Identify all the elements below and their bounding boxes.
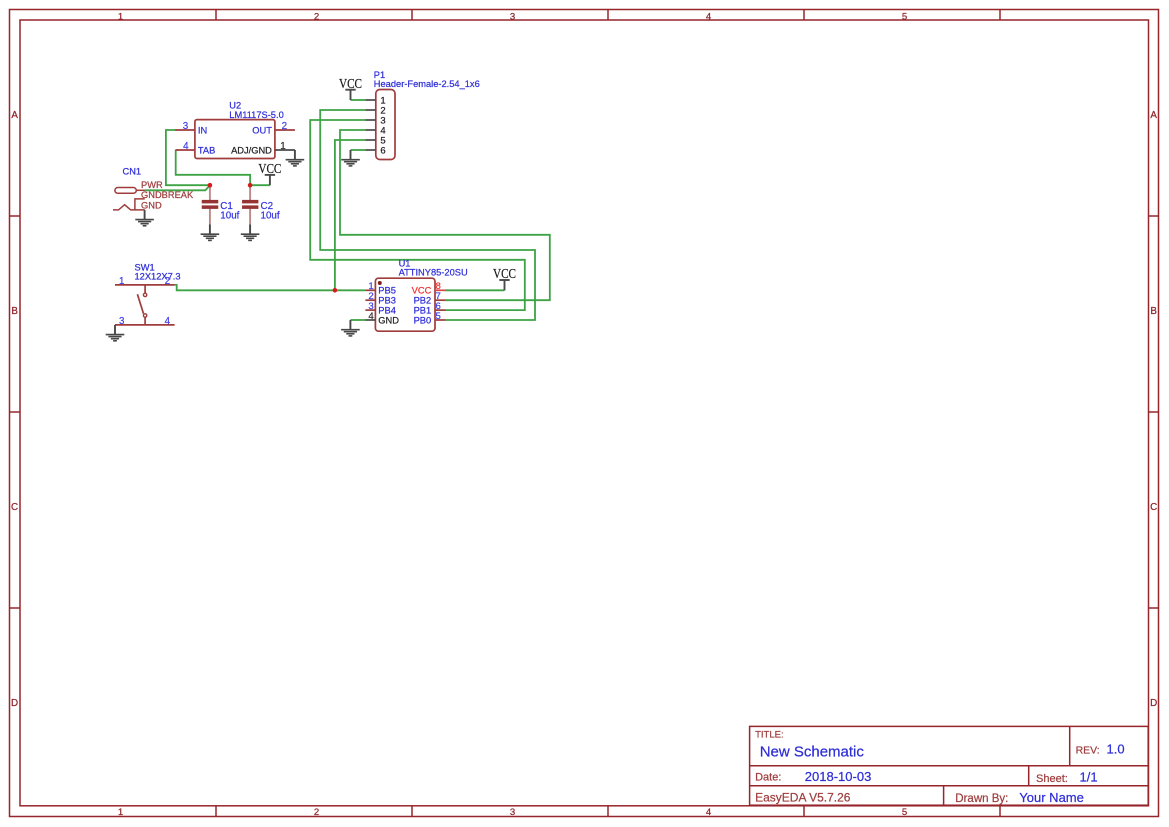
svg-text:OUT: OUT bbox=[252, 125, 272, 135]
svg-text:ADJ/GND: ADJ/GND bbox=[231, 145, 272, 155]
svg-text:1: 1 bbox=[280, 141, 285, 152]
svg-text:GND: GND bbox=[141, 200, 162, 210]
svg-text:EasyEDA V5.7.26: EasyEDA V5.7.26 bbox=[755, 791, 851, 805]
svg-text:4: 4 bbox=[706, 807, 712, 818]
svg-text:6: 6 bbox=[380, 145, 385, 156]
svg-text:3: 3 bbox=[510, 807, 515, 818]
svg-text:PB2: PB2 bbox=[414, 296, 432, 306]
svg-text:D: D bbox=[1150, 698, 1157, 709]
svg-text:12X12X7.3: 12X12X7.3 bbox=[135, 272, 181, 282]
svg-text:ATTINY85-20SU: ATTINY85-20SU bbox=[399, 267, 468, 277]
svg-text:LM1117S-5.0: LM1117S-5.0 bbox=[229, 110, 283, 120]
svg-text:Sheet:: Sheet: bbox=[1036, 773, 1068, 785]
svg-text:PB5: PB5 bbox=[378, 286, 396, 296]
svg-text:REV:: REV: bbox=[1076, 744, 1100, 756]
svg-text:2: 2 bbox=[314, 11, 319, 22]
svg-text:Drawn By:: Drawn By: bbox=[955, 793, 1008, 805]
svg-text:New Schematic: New Schematic bbox=[760, 744, 865, 761]
svg-text:IN: IN bbox=[198, 125, 207, 135]
svg-text:PB0: PB0 bbox=[414, 315, 432, 325]
svg-text:2: 2 bbox=[282, 121, 287, 132]
svg-text:2: 2 bbox=[165, 276, 170, 287]
svg-text:3: 3 bbox=[119, 316, 125, 327]
svg-text:GNDBREAK: GNDBREAK bbox=[141, 190, 194, 200]
svg-text:5: 5 bbox=[436, 311, 441, 322]
svg-text:5: 5 bbox=[902, 807, 907, 818]
svg-text:Date:: Date: bbox=[755, 772, 781, 784]
svg-text:Header-Female-2.54_1x6: Header-Female-2.54_1x6 bbox=[374, 79, 480, 89]
svg-text:1.0: 1.0 bbox=[1107, 741, 1125, 756]
svg-text:4: 4 bbox=[183, 141, 189, 152]
svg-text:D: D bbox=[11, 698, 18, 709]
svg-text:PB3: PB3 bbox=[378, 296, 396, 306]
svg-text:B: B bbox=[1150, 306, 1157, 317]
svg-text:3: 3 bbox=[510, 11, 515, 22]
svg-text:3: 3 bbox=[183, 121, 189, 132]
svg-text:2: 2 bbox=[314, 807, 319, 818]
svg-text:CN1: CN1 bbox=[123, 167, 142, 177]
svg-text:1: 1 bbox=[118, 11, 123, 22]
svg-text:1: 1 bbox=[118, 807, 123, 818]
svg-text:VCC: VCC bbox=[412, 286, 432, 296]
svg-text:PWR: PWR bbox=[141, 180, 163, 190]
svg-text:4: 4 bbox=[165, 316, 171, 327]
svg-text:PB1: PB1 bbox=[414, 305, 432, 315]
svg-text:2018-10-03: 2018-10-03 bbox=[805, 769, 872, 784]
svg-text:GND: GND bbox=[378, 315, 399, 325]
svg-text:1/1: 1/1 bbox=[1080, 769, 1098, 784]
svg-text:TAB: TAB bbox=[198, 145, 215, 155]
svg-text:1: 1 bbox=[119, 276, 124, 287]
svg-text:TITLE:: TITLE: bbox=[755, 729, 784, 740]
svg-text:10uf: 10uf bbox=[261, 211, 280, 222]
svg-text:5: 5 bbox=[902, 11, 907, 22]
svg-text:10uf: 10uf bbox=[220, 211, 239, 222]
svg-text:A: A bbox=[11, 110, 18, 121]
svg-text:B: B bbox=[11, 306, 18, 317]
svg-text:Your Name: Your Name bbox=[1019, 790, 1084, 805]
svg-text:C: C bbox=[1150, 502, 1157, 513]
svg-text:PB4: PB4 bbox=[378, 305, 396, 315]
svg-text:4: 4 bbox=[706, 11, 712, 22]
svg-text:A: A bbox=[1150, 110, 1157, 121]
svg-text:8: 8 bbox=[436, 281, 441, 292]
svg-text:4: 4 bbox=[368, 311, 374, 322]
svg-text:C: C bbox=[11, 502, 18, 513]
